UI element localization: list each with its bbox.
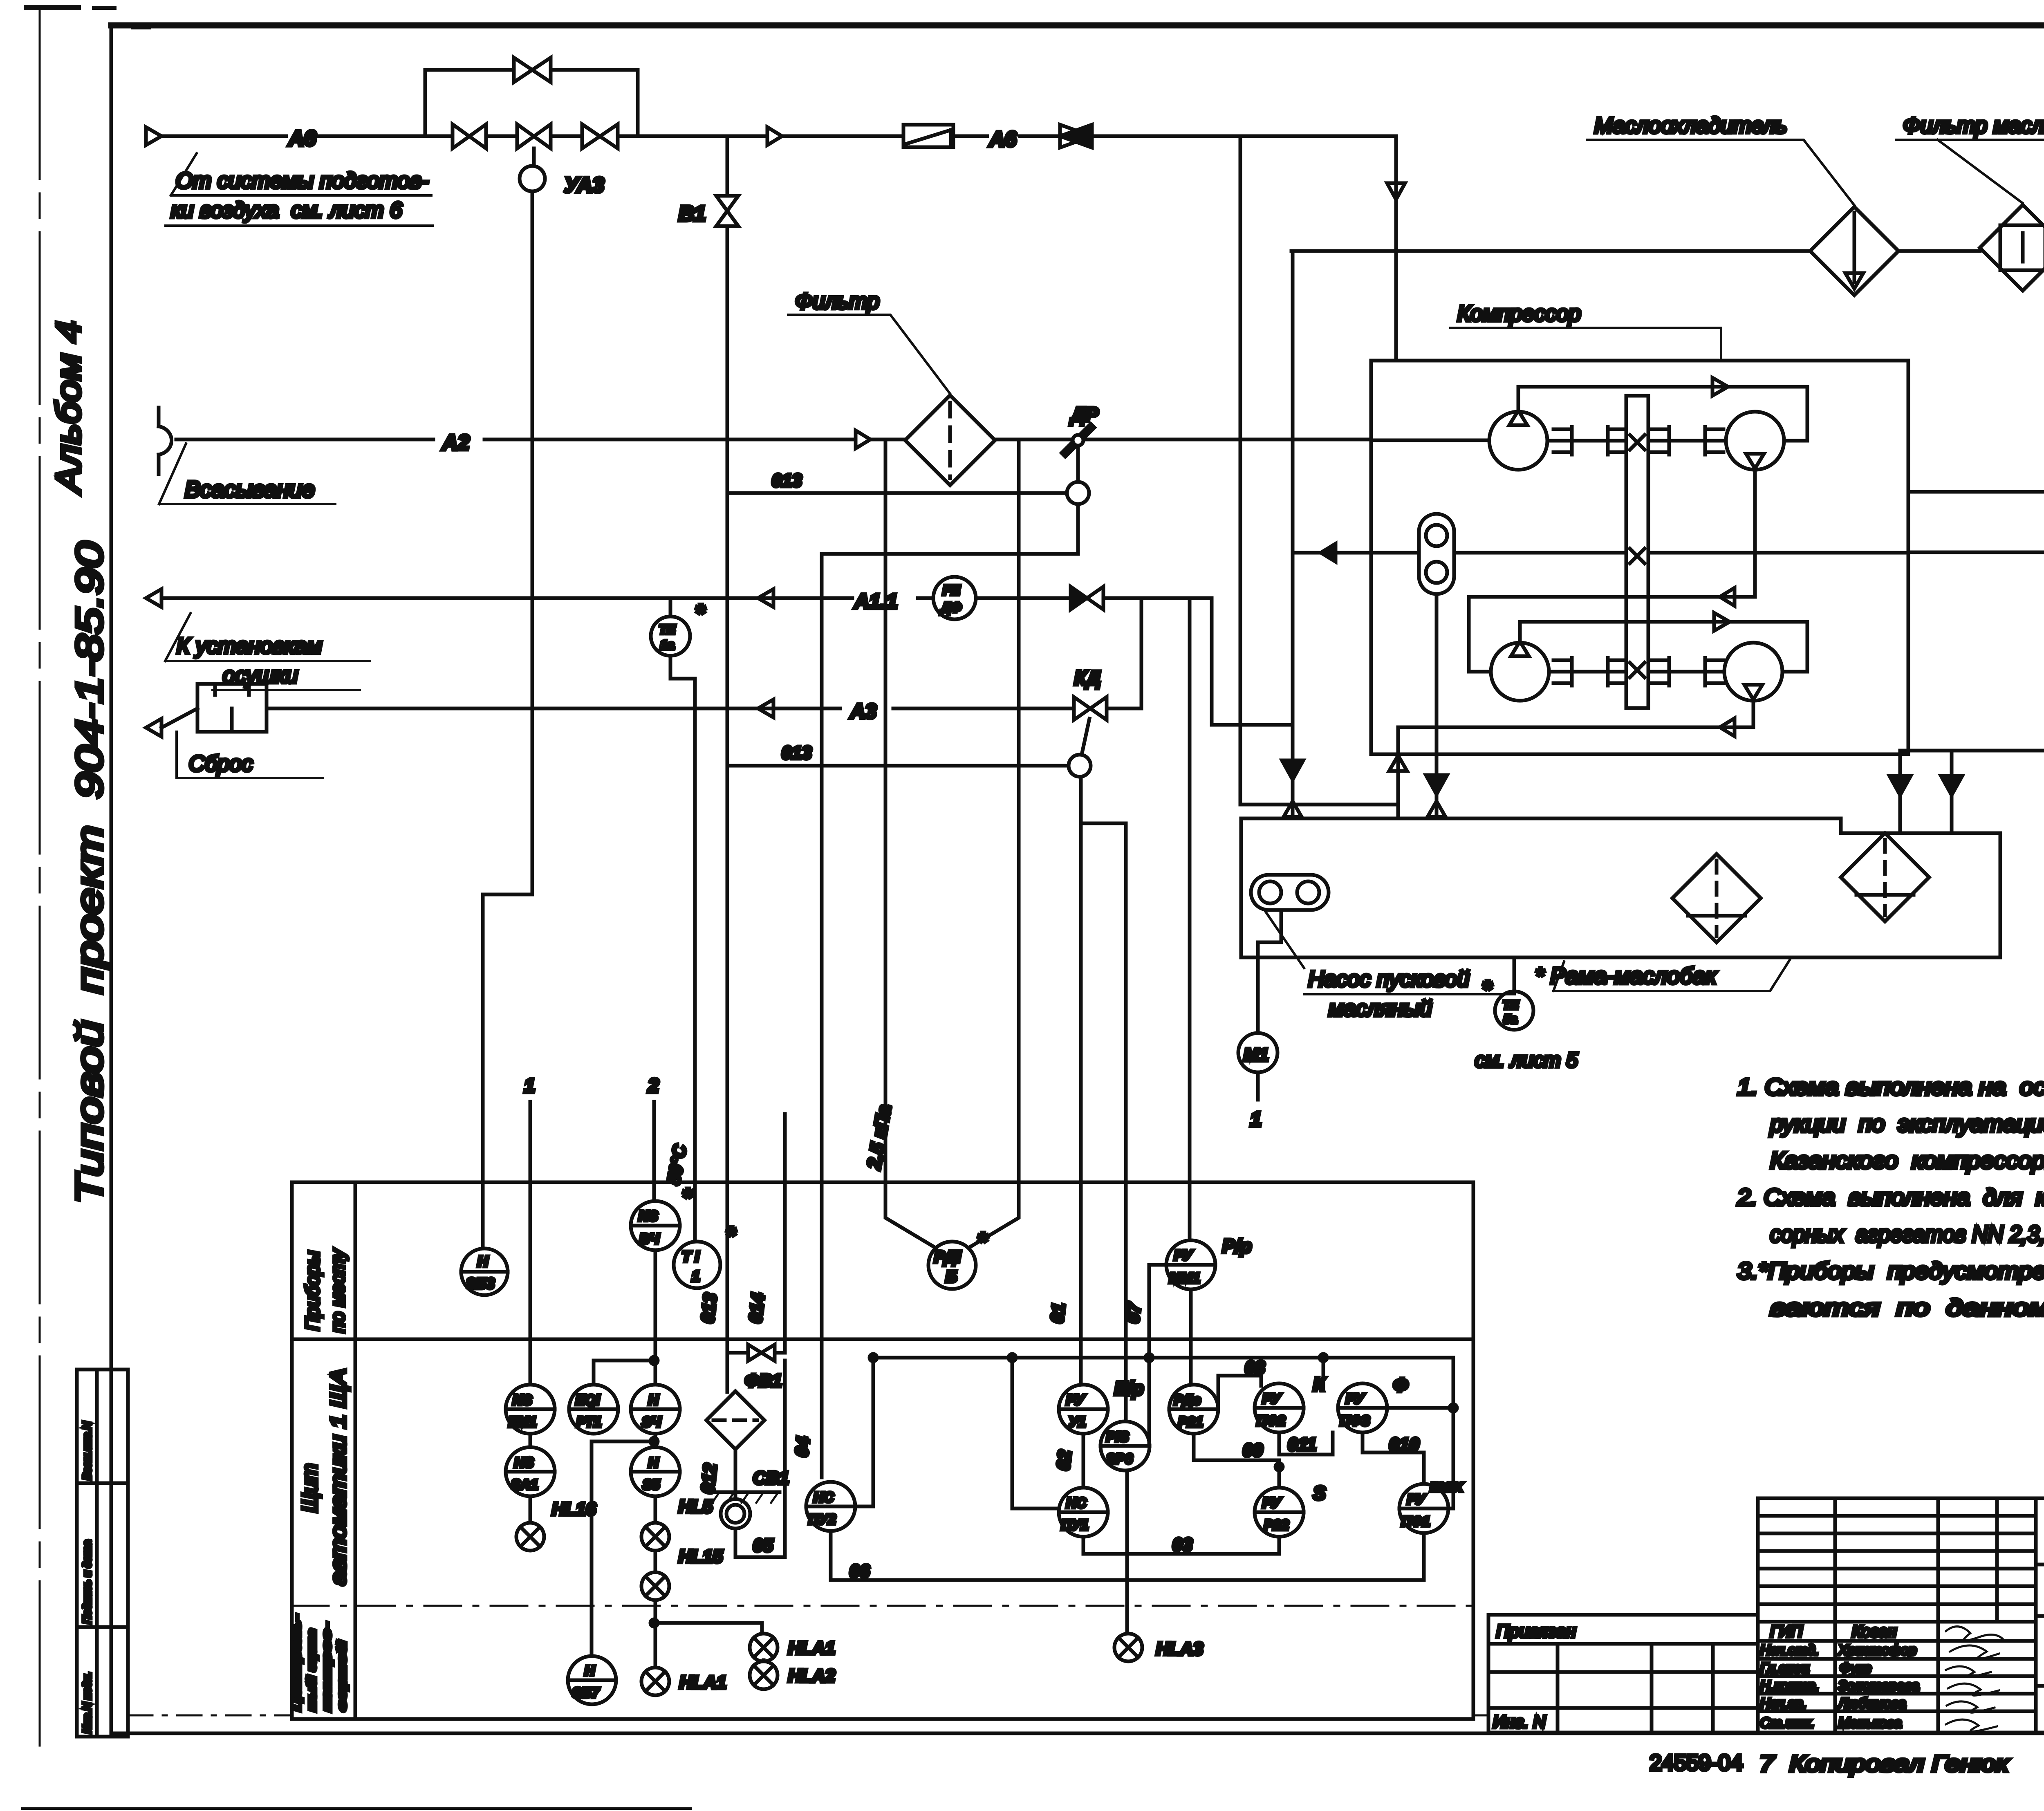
stage loop top [1518, 378, 1807, 441]
svg-text:Б: Б [946, 1268, 957, 1286]
svg-text:сорной: сорной [335, 1641, 349, 1711]
stage loop lower [1520, 613, 1807, 672]
label Насос пусковой масляный [1264, 910, 1515, 1021]
svg-text:Н: Н [585, 1663, 595, 1679]
orifice device on А6 [903, 125, 953, 147]
svg-text:Золотарева: Золотарева [1838, 1678, 1919, 1694]
compressor casing box [1371, 361, 1908, 754]
arrow on А2 [856, 430, 870, 448]
svg-text:013: 013 [782, 743, 811, 763]
tank filter diamond 2 [1841, 833, 1929, 921]
wire max riser [1387, 1358, 1464, 1508]
svg-text:Фильтр масляный: Фильтр масляный [1903, 113, 2044, 138]
wire 011 [1279, 1432, 1333, 1455]
coupling lower left [1553, 658, 1626, 686]
wire ТЕ1а to ТI1 [670, 656, 695, 1240]
svg-text:1: 1 [692, 1268, 700, 1284]
svg-text:Н: Н [648, 1392, 659, 1408]
converter РУ У1 [1059, 1378, 1144, 1434]
svg-text:Инв.N подл.: Инв.N подл. [81, 1672, 93, 1733]
svg-text:К установкам: К установкам [177, 634, 322, 658]
wire А6 branch down [1240, 136, 1398, 805]
label Фильтр масляный [1896, 113, 2044, 203]
wire 09 [1194, 1434, 1283, 1488]
device СВ1 [712, 1449, 789, 1529]
svg-text:ПУ1: ПУ1 [1061, 1517, 1088, 1533]
svg-text:03: 03 [1172, 1535, 1192, 1555]
hand switch Н SБ3 [461, 1248, 508, 1295]
svg-text:РУ: РУ [1346, 1391, 1365, 1407]
svg-text:S5: S5 [643, 1477, 660, 1493]
wire branch to PIS [1081, 823, 1126, 1421]
oil pump drive shaft [1293, 544, 1908, 562]
svg-text:ный щит: ный щит [305, 1629, 318, 1711]
svg-text:04: 04 [791, 1436, 814, 1458]
panel signal bus [873, 1354, 1453, 1361]
svg-text:08: 08 [1245, 1358, 1265, 1378]
oil cooler diamond [1810, 207, 1898, 295]
svg-text:Ст.инж.: Ст.инж. [1760, 1715, 1814, 1731]
svg-text:Казанского компрессорного за: Казанского компрессорного завода. [1770, 1148, 2044, 1174]
wire 013 second branch [727, 743, 1091, 777]
svg-text:50°С: 50°С [664, 1143, 691, 1186]
switch НС ПУ1 [1012, 1358, 1108, 1537]
attachment table Привязан [1488, 1615, 1758, 1733]
svg-text:2. Схема выполнена для комп: 2. Схема выполнена для компрессорного аг… [1737, 1184, 2044, 1210]
svg-text:09: 09 [1243, 1440, 1263, 1460]
title block grid [1758, 1498, 2044, 1733]
svg-text:1. Схема выполнена на основан: 1. Схема выполнена на основании техничес… [1737, 1074, 2044, 1100]
svg-text:М1: М1 [1244, 1045, 1269, 1065]
wire 08 [1218, 1358, 1265, 1409]
pipe А1.1 to drying units [161, 596, 1208, 600]
oil pump suction pipe [1426, 594, 1447, 818]
svg-text:*: * [695, 599, 706, 627]
svg-text:Н: Н [648, 1455, 659, 1470]
svg-text:Инв. N: Инв. N [1493, 1712, 1546, 1731]
svg-text:НС: НС [1066, 1495, 1087, 1511]
wire 013 stem down to panel valve ФВ1 [726, 493, 729, 1392]
svg-text:А6: А6 [288, 127, 316, 150]
oil pump capsule [1419, 514, 1454, 594]
svg-text:Гл.спец: Гл.спец [1760, 1661, 1809, 1676]
pipe А2 suction [176, 439, 1489, 440]
relay Н SЧ [631, 1385, 680, 1434]
svg-text:масляный: масляный [1329, 996, 1432, 1021]
wire 07 bracket [1123, 1265, 1166, 1443]
compressor stage 3 circle [1491, 641, 1549, 701]
label А6 second [988, 128, 1017, 151]
bellmouth on А2 [159, 408, 172, 474]
svg-text:рукции по эксплуатации 0.002: рукции по эксплуатации 0.002.769ТО и чер… [1769, 1111, 2044, 1137]
svg-text:Христофор: Христофор [1838, 1643, 1916, 1658]
wire А1.1 branch to tank [1212, 598, 1293, 725]
svg-text:НLА1: НLА1 [679, 1672, 726, 1692]
svg-text:ДФ: ДФ [940, 600, 961, 615]
relay РУ ПФ1 [1399, 1484, 1448, 1533]
wire from ДР tap to line 04 [822, 446, 1078, 1477]
svg-text:Н: Н [477, 1253, 489, 1270]
coupling upper left [1553, 427, 1626, 455]
electric motor М [1908, 522, 2044, 583]
signature scribbles [1946, 1627, 2003, 1732]
margin text Альбом 4 [49, 321, 87, 495]
arrow А1.1 page left [146, 589, 161, 607]
svg-text:Е/р: Е/р [1114, 1378, 1144, 1399]
svg-text:РУ: РУ [1407, 1492, 1426, 1507]
tank filter diamond 1 [1672, 854, 1761, 942]
svg-text:Централь-: Централь- [290, 1615, 303, 1711]
button Н SБ7 [568, 1656, 616, 1704]
svg-text:НL15: НL15 [679, 1547, 723, 1567]
svg-text:ТЕ: ТЕ [659, 622, 676, 637]
margin stamp boxes [77, 1369, 128, 1737]
svg-text:*: * [682, 1183, 693, 1212]
svg-text:SА1: SА1 [511, 1477, 538, 1493]
label А6 [288, 127, 316, 150]
wire 014 [745, 1114, 785, 1353]
svg-text:SБ7: SБ7 [572, 1685, 600, 1701]
svg-text:сорных агрегатов NN 2,3,4,5 с: сорных агрегатов NN 2,3,4,5 схема аналог… [1770, 1221, 2044, 1247]
svg-text:НS: НS [514, 1455, 534, 1470]
panel filter diamond [706, 1391, 764, 1449]
svg-text:SЧ: SЧ [642, 1414, 661, 1430]
panel row label Приборы по месту [302, 1248, 348, 1333]
gauge РДI Б [928, 1228, 988, 1289]
interstage pipe [1469, 468, 1755, 672]
svg-text:01: 01 [1047, 1302, 1069, 1324]
lamp НL15 [641, 1547, 723, 1600]
svg-text:SБ3: SБ3 [466, 1275, 495, 1292]
svg-text:ПФ2: ПФ2 [1257, 1413, 1285, 1429]
wire 01 down to РУ У1 [1047, 777, 1081, 1385]
pipe А6 from air prep system [161, 134, 1396, 138]
compressor stage 2 circle [1726, 412, 1784, 470]
lamp НLА3 [1114, 1634, 1203, 1661]
starting oil pump capsule [1251, 875, 1329, 910]
label 2,5 кПа [863, 1103, 895, 1171]
oil pipe to cooler [1291, 249, 2044, 253]
oil pipe right riser [1900, 251, 2044, 776]
automation panel box [292, 1182, 1473, 1719]
svg-text:Взам.инв.N: Взам.инв.N [81, 1421, 93, 1480]
vent silencer box Сброс [197, 684, 267, 732]
svg-text:1а: 1а [660, 638, 674, 652]
discharge pipe lower [1389, 701, 1753, 818]
svg-text:Фукс: Фукс [1840, 1661, 1871, 1676]
panel row label Щит автоматики 1ЩА [298, 1369, 350, 1585]
svg-text:ПФЗ: ПФЗ [1340, 1413, 1370, 1429]
pipe А3 blowoff [267, 707, 1141, 711]
valve on А6 right [582, 124, 618, 148]
label Сброс [177, 732, 323, 778]
paper left edge dash line [39, 7, 41, 1746]
svg-text:ММ1: ММ1 [1169, 1271, 1200, 1286]
svg-text:*: * [1482, 975, 1493, 1003]
check valve on А6 [1060, 125, 1092, 148]
switch НS SА1 [506, 1434, 555, 1496]
wire 07 down to РУ ММ1 [1188, 598, 1192, 1240]
gear bar [1626, 396, 1648, 708]
svg-text:Типовой проект 904-1-85.90: Типовой проект 904-1-85.90 [69, 542, 110, 1204]
svg-text:РУ: РУ [1262, 1391, 1282, 1407]
label Всасывание [159, 444, 335, 504]
svg-text:Менькова: Менькова [1838, 1715, 1902, 1731]
paper top-left scan marks [24, 5, 151, 29]
svg-text:РДс: РДс [1174, 1392, 1201, 1408]
thermo element ТЕ 1а [651, 598, 706, 656]
compressor stage 4 circle [1724, 643, 1782, 701]
shaft upper [1547, 439, 1807, 443]
svg-text:ВЧ: ВЧ [639, 1231, 660, 1247]
bypass valve [514, 58, 551, 82]
label От системы подготовки воздуха [166, 153, 433, 226]
svg-text:РУ: РУ [1066, 1392, 1085, 1408]
frame oil tank Рама-маслобак [1241, 818, 2000, 957]
svg-text:NS: NS [639, 1208, 658, 1224]
svg-text:013: 013 [772, 471, 802, 491]
svg-text:013: 013 [697, 1292, 720, 1324]
svg-text:Н.контр.: Н.контр. [1760, 1678, 1819, 1694]
relay РДс Р21 [1169, 1289, 1218, 1434]
wire ПФ2 to bus [1322, 1358, 1325, 1390]
label А1.1 [854, 590, 898, 613]
svg-text:ГИП: ГИП [1770, 1623, 1803, 1641]
svg-text:SР6: SР6 [1106, 1451, 1133, 1467]
starter NS КМ1 [506, 1385, 555, 1434]
wire to НLА3 [1125, 1470, 1129, 1634]
svg-text:*: * [726, 1222, 736, 1249]
damper ДР on А2 [1065, 404, 1099, 453]
arrow А3 mid [758, 699, 773, 717]
valve on А6 [453, 124, 486, 148]
svg-text:А6: А6 [988, 128, 1017, 151]
svg-text:5а: 5а [1504, 1013, 1517, 1026]
svg-text:ки воздуха см. лист 6: ки воздуха см. лист 6 [171, 198, 403, 222]
oil drain valve left [1282, 251, 1303, 818]
wire УА3 down to panel [483, 191, 532, 1248]
svg-text:НLА3: НLА3 [1156, 1639, 1203, 1659]
label Маслоохладитель [1587, 113, 1854, 205]
svg-text:Фильтр: Фильтр [795, 289, 879, 314]
svg-text:УА3: УА3 [564, 173, 604, 197]
svg-text:ТЕ: ТЕ [1503, 998, 1519, 1012]
arrow А1.1 mid [758, 589, 773, 607]
relay РУ ПФ3 [1338, 1374, 1408, 1432]
lamp НL5 [641, 1496, 713, 1551]
wire 013 label at panel [697, 1292, 720, 1324]
svg-text:РДI: РДI [934, 1248, 961, 1266]
arrow down on А6 branch [1387, 136, 1405, 361]
svg-text:А1.1: А1.1 [854, 590, 898, 613]
relay РУ Р22 [1255, 1482, 1326, 1537]
svg-text:ваются по данному проекту.: ваются по данному проекту. [1770, 1295, 2044, 1321]
svg-text:НL16: НL16 [552, 1499, 596, 1519]
wire 013 first branch [727, 471, 1089, 504]
svg-text:РТ1: РТ1 [576, 1414, 601, 1430]
svg-text:Нач.гр.: Нач.гр. [1760, 1696, 1806, 1711]
svg-text:Ф: Ф [1393, 1374, 1408, 1396]
svg-text:06: 06 [849, 1561, 870, 1581]
svg-text:1: 1 [524, 1075, 535, 1097]
svg-text:НL5: НL5 [679, 1497, 713, 1517]
wire 02 [1053, 1434, 1083, 1488]
air filter on А2 [905, 395, 995, 485]
svg-text:РIS: РIS [1106, 1429, 1129, 1445]
svg-text:Привязан: Привязан [1496, 1621, 1576, 1641]
relay РУ ПФ2 [1255, 1374, 1326, 1432]
lamp НLА1 bottom [641, 1600, 726, 1695]
valve ФВ1 [727, 1345, 785, 1391]
svg-text:Нач.отд.: Нач.отд. [1760, 1643, 1819, 1658]
svg-text:Всасывание: Всасывание [185, 476, 315, 502]
pressure switch РIS SР6 [1100, 1421, 1150, 1470]
solenoid circle УА3 [520, 148, 604, 197]
valve УА3 body [517, 124, 551, 148]
wire 2 to panel [648, 1075, 659, 1201]
svg-text:014: 014 [745, 1292, 768, 1324]
svg-text:Щит: Щит [298, 1464, 322, 1513]
wire 03 [1083, 1535, 1279, 1555]
svg-text:ПФ1: ПФ1 [1401, 1514, 1430, 1529]
wire 05 [735, 1360, 785, 1557]
svg-text:3.*Приборы предусмотрены для: 3.*Приборы предусмотрены для каждого ком… [1737, 1258, 2044, 1284]
svg-text:НС: НС [814, 1490, 834, 1505]
svg-text:S: S [1313, 1482, 1326, 1504]
panel row label Центральный щит компрессорной [290, 1615, 349, 1711]
label Компрессор [1450, 301, 1721, 361]
svg-text:Насос пусковой: Насос пусковой [1308, 967, 1469, 991]
valve on А1.1 [1071, 587, 1103, 610]
svg-text:Р21: Р21 [1178, 1414, 1203, 1430]
lamps НLА1 НLА2 right [654, 1623, 835, 1689]
coupling upper right [1651, 427, 1724, 455]
temp indicator ТI 1 [655, 1222, 736, 1385]
svg-text:по месту: по месту [327, 1248, 348, 1333]
svg-text:Альбом 4: Альбом 4 [49, 321, 87, 495]
svg-text:2,5 кПа: 2,5 кПа [863, 1103, 895, 1171]
flow element FE ДФ [933, 577, 976, 619]
svg-text:КД: КД [1074, 668, 1100, 689]
svg-text:010: 010 [1389, 1434, 1419, 1455]
svg-text:07: 07 [1123, 1301, 1145, 1324]
pressure taps of filter to РДI funnel [885, 439, 1019, 1248]
svg-text:У1: У1 [1069, 1414, 1086, 1430]
label 50°С [664, 1143, 691, 1186]
converter РУ ММ1 [1166, 1235, 1252, 1289]
margin text Типовой проект 904-1-85.90 [69, 542, 110, 1204]
wire А1.1 end down to А3 [1140, 598, 1143, 708]
pump motor М1 [1238, 910, 1281, 1131]
coupling lower right [1651, 658, 1724, 686]
arrow on А6 mid [767, 127, 782, 145]
svg-text:Приборы: Приборы [302, 1251, 323, 1331]
label К установкам осушки [165, 613, 370, 690]
svg-text:А3: А3 [849, 700, 876, 723]
label Фильтр [788, 289, 950, 394]
wire 010 [1363, 1432, 1424, 1484]
svg-text:02: 02 [1053, 1449, 1075, 1471]
svg-text:см. лист 5: см. лист 5 [1475, 1049, 1578, 1071]
switch НС ПУ2 [806, 1354, 877, 1531]
oil filter diamond [1980, 205, 2044, 291]
label 012 [697, 1462, 720, 1495]
panel bottom dash continuation [128, 1715, 1488, 1717]
svg-text:КМ1: КМ1 [509, 1414, 536, 1430]
signature rows [1760, 1623, 1919, 1731]
switch NS ВЧ [631, 1183, 693, 1250]
thermo element ТЕ 5а [1475, 957, 1578, 1071]
wire 1 to panel [524, 1075, 535, 1385]
svg-text:В1: В1 [679, 202, 706, 226]
svg-text:Т I: Т I [682, 1248, 699, 1265]
bypass pipe over УА3 [425, 70, 638, 136]
relay Н S5 [592, 1434, 680, 1656]
svg-text:2: 2 [648, 1075, 659, 1097]
svg-text:ДР: ДР [1069, 404, 1099, 426]
svg-text:*: * [977, 1228, 988, 1256]
svg-text:РУ: РУ [1262, 1495, 1282, 1511]
svg-text:автоматики 1 ЩА: автоматики 1 ЩА [327, 1369, 350, 1585]
arrow А3 page left with vent box [146, 708, 197, 737]
svg-text:Р22: Р22 [1264, 1517, 1289, 1533]
valve В1 [679, 136, 738, 493]
arrow on А6 left [146, 127, 161, 145]
svg-text:От системы подготов-: От системы подготов- [176, 168, 428, 193]
svg-text:НLА2: НLА2 [788, 1666, 835, 1686]
svg-text:24559-04: 24559-04 [1650, 1750, 1743, 1775]
paper bottom-left edge line [22, 1807, 691, 1810]
label 04 [791, 1436, 814, 1458]
svg-text:ПУ2: ПУ2 [809, 1512, 836, 1527]
valve КД on А3 [1074, 668, 1107, 755]
label Рама-маслобак [1535, 960, 1790, 991]
svg-text:Компрессор: Компрессор [1457, 301, 1581, 326]
shaft lower [1549, 670, 1724, 674]
label А3 [849, 700, 876, 723]
oil return pipe to compressor [1908, 483, 2044, 501]
svg-text:Подпись и дата: Подпись и дата [81, 1540, 93, 1624]
meter ЕQI РТ1 [569, 1357, 658, 1434]
svg-text:Сброс: Сброс [189, 751, 253, 776]
svg-text:ЕQI: ЕQI [576, 1392, 600, 1408]
svg-text:Коган: Коган [1852, 1623, 1896, 1641]
svg-text:7 Копировал Генюк Кальку: 7 Копировал Генюк Кальку сверил Менькова… [1752, 1750, 2044, 1776]
svg-text:NS: NS [513, 1392, 532, 1408]
svg-text:РУ: РУ [1174, 1248, 1193, 1263]
svg-text:FЕ: FЕ [943, 583, 960, 598]
lamp НL16 [516, 1496, 596, 1551]
bottom copy text [1650, 1750, 2044, 1776]
svg-text:компрес-: компрес- [320, 1623, 334, 1711]
wire 06 [831, 1531, 1424, 1581]
svg-text:НLА1: НLА1 [788, 1638, 835, 1658]
svg-text:011: 011 [1288, 1434, 1316, 1455]
svg-text:Маслоохладитель: Маслоохладитель [1594, 113, 1787, 138]
tank inlet arrows right [1889, 751, 1962, 833]
label А2 [442, 431, 470, 455]
compressor stage 1 circle [1489, 410, 1547, 470]
svg-text:А2: А2 [442, 431, 470, 455]
svg-text:1: 1 [1250, 1108, 1262, 1131]
svg-text:Любимова: Любимова [1838, 1696, 1906, 1711]
notes text [1737, 1074, 2044, 1321]
svg-text:012: 012 [697, 1462, 720, 1495]
svg-text:05: 05 [753, 1535, 773, 1555]
svg-text:Р/р: Р/р [1222, 1235, 1252, 1257]
svg-text:ФВ1: ФВ1 [745, 1371, 782, 1391]
